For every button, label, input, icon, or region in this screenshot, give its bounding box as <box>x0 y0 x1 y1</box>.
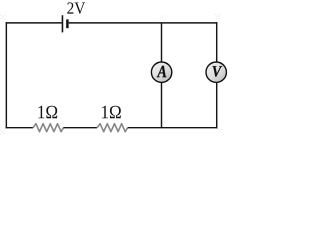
wire bottom-left segment <box>6 127 33 129</box>
wire voltmeter branch (right side) <box>216 22 218 128</box>
resistor R2 zigzag <box>97 124 128 132</box>
wire top-right segment <box>69 22 218 24</box>
battery value label 2V <box>67 2 85 14</box>
battery B1 short plate <box>66 19 69 28</box>
ammeter M1 circle <box>151 62 171 82</box>
wire ammeter branch <box>161 23 163 128</box>
resistor R2 label 1Ω <box>102 106 121 119</box>
resistor R1 zigzag <box>33 124 63 132</box>
wire left side <box>5 22 7 128</box>
faint erase mark top-left <box>0 15 5 19</box>
battery B1 long plate <box>61 15 63 32</box>
faint erase mark top-right <box>215 14 221 20</box>
voltmeter M2 letter V <box>213 66 223 77</box>
wire bottom-right segment <box>128 127 218 129</box>
wire bottom-middle segment <box>63 127 97 129</box>
faint erase mark bottom-left <box>0 129 5 134</box>
ammeter M1 letter A <box>157 66 167 78</box>
faint erase mark top of ammeter branch <box>160 15 165 20</box>
resistor R1 label 1Ω <box>38 106 57 119</box>
faint erase mark bottom-right <box>218 129 223 134</box>
wire top-left segment <box>6 22 62 24</box>
voltmeter M2 circle <box>206 62 226 82</box>
